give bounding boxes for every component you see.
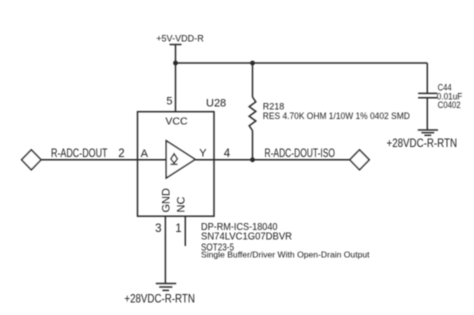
svg-text:RES 4.70K OHM 1/10W 1% 0402 SM: RES 4.70K OHM 1/10W 1% 0402 SMD <box>263 111 410 122</box>
wire pin 5 <box>175 63 177 112</box>
resistor R218 <box>249 63 256 160</box>
svg-text:2: 2 <box>118 148 124 160</box>
wire rail to C44 <box>426 63 428 93</box>
off-page connector right <box>350 150 369 170</box>
off-page connector left <box>22 150 41 170</box>
svg-text:5: 5 <box>166 96 172 108</box>
svg-text:C0402: C0402 <box>438 100 461 111</box>
wire input net <box>41 159 166 161</box>
capacitor C44 <box>418 93 437 97</box>
svg-text:VCC: VCC <box>165 116 188 128</box>
open-drain symbol <box>170 154 177 165</box>
svg-text:U28: U28 <box>206 98 226 110</box>
wire C44 to ground <box>426 98 428 130</box>
wire top rail <box>176 62 428 64</box>
wire output net <box>195 159 350 161</box>
ground symbol right <box>418 130 438 135</box>
svg-text:NC: NC <box>175 197 187 213</box>
wire pin 1 stub <box>184 216 186 246</box>
wire power stem <box>175 45 177 64</box>
svg-text:A: A <box>141 148 149 160</box>
svg-text:R-ADC-DOUT: R-ADC-DOUT <box>51 148 108 160</box>
junction at +5V rail / pin5 <box>173 61 178 66</box>
svg-text:R-ADC-DOUT-ISO: R-ADC-DOUT-ISO <box>265 148 336 160</box>
ground symbol bottom <box>156 284 176 291</box>
svg-text:Single Buffer/Driver With Open: Single Buffer/Driver With Open-Drain Out… <box>201 249 370 259</box>
svg-text:+28VDC-R-RTN: +28VDC-R-RTN <box>124 293 194 305</box>
junction R218 / output wire <box>250 157 255 162</box>
buffer triangle <box>166 141 195 178</box>
power +5V-VDD-R <box>156 34 204 45</box>
svg-text:3: 3 <box>155 223 161 235</box>
junction at rail / R218 <box>250 61 255 66</box>
wire pin 3 to ground <box>164 216 166 283</box>
svg-text:+28VDC-R-RTN: +28VDC-R-RTN <box>387 138 458 150</box>
svg-text:4: 4 <box>224 148 231 160</box>
svg-text:Y: Y <box>199 148 207 160</box>
svg-text:+5V-VDD-R: +5V-VDD-R <box>156 34 204 45</box>
IC box U28 <box>138 112 215 217</box>
svg-text:GND: GND <box>161 188 173 213</box>
svg-text:1: 1 <box>175 223 181 235</box>
